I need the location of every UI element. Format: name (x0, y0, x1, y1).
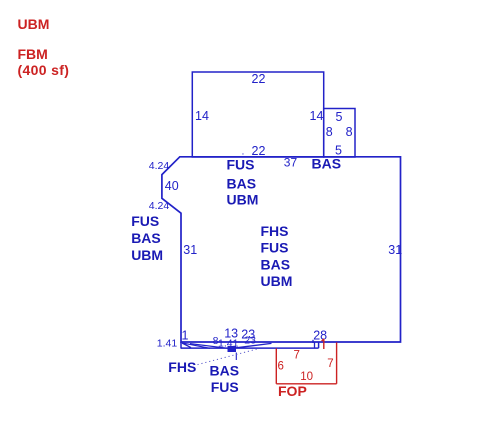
svg-text:7: 7 (294, 349, 300, 361)
svg-text:BAS: BAS (131, 230, 161, 246)
svg-text:1: 1 (182, 329, 189, 343)
svg-text:14: 14 (195, 109, 209, 123)
strip diagonal long left (190, 344, 232, 349)
svg-text:FUS: FUS (211, 379, 239, 395)
small right rectangle outline (324, 109, 355, 158)
svg-text:4.24: 4.24 (149, 200, 170, 212)
small cross tick below square (235, 353, 237, 361)
FOP right wall (red) (336, 342, 338, 383)
svg-text:8: 8 (326, 125, 333, 139)
svg-text:6: 6 (278, 361, 284, 373)
svg-text:28: 28 (313, 329, 327, 343)
svg-text:22: 22 (252, 72, 266, 86)
svg-text:BAS: BAS (210, 363, 240, 379)
FOP bottom wall (red) (276, 383, 336, 385)
svg-text:31: 31 (183, 243, 197, 257)
svg-text:BAS: BAS (312, 156, 342, 172)
svg-text:BAS: BAS (261, 256, 291, 272)
svg-text:FBM: FBM (18, 46, 48, 62)
strip diagonal medium (184, 343, 211, 348)
svg-text:FHS: FHS (261, 223, 289, 239)
svg-text:8: 8 (346, 125, 353, 139)
svg-text:FHS: FHS (168, 359, 196, 375)
filled square marker (228, 346, 237, 352)
svg-text:UBM: UBM (131, 247, 163, 263)
bottom strip bottom wall (181, 347, 319, 349)
svg-text:(400 sf): (400 sf) (18, 62, 70, 78)
svg-text:31: 31 (388, 243, 402, 257)
svg-text:40: 40 (165, 179, 179, 193)
svg-text:FUS: FUS (261, 240, 289, 256)
dotted leader from FHS (198, 349, 259, 365)
svg-text:23: 23 (244, 335, 256, 347)
svg-text:37: 37 (284, 156, 298, 170)
svg-text:UBM: UBM (227, 192, 259, 208)
svg-text:5: 5 (336, 110, 343, 124)
svg-text:BAS: BAS (227, 176, 257, 192)
svg-text:FUS: FUS (131, 213, 159, 229)
FOP left wall (red) (275, 348, 277, 383)
strip diagonal long right (228, 343, 272, 348)
svg-text:1.41: 1.41 (157, 337, 178, 349)
main body outline with left bay (162, 157, 401, 342)
svg-text:7: 7 (327, 358, 333, 370)
bottom strip left wall (180, 342, 182, 349)
tick above strip end (312, 340, 314, 343)
bottom strip right cap wall (318, 342, 320, 348)
red dim 1 tick (322, 339, 324, 349)
svg-text:FOP: FOP (278, 383, 307, 399)
svg-text:UBM: UBM (261, 273, 293, 289)
bottom strip inner wall (314, 342, 316, 348)
svg-text:10: 10 (300, 371, 313, 383)
svg-text:FUS: FUS (227, 156, 255, 172)
svg-text:14: 14 (310, 109, 324, 123)
svg-text:1.41: 1.41 (218, 338, 239, 350)
svg-text:UBM: UBM (18, 16, 50, 32)
strip diagonal steep (182, 343, 191, 348)
top addition rectangle outline (192, 72, 323, 157)
svg-text:4.24: 4.24 (149, 160, 170, 172)
